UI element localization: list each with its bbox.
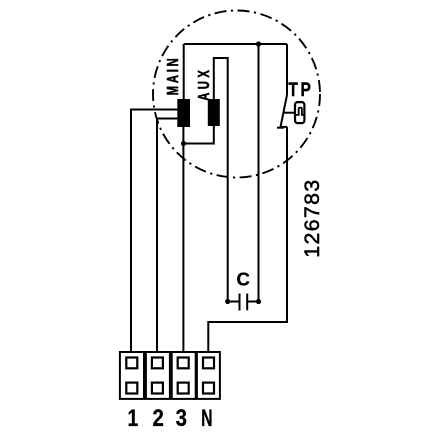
svg-text:126783: 126783 (300, 178, 324, 257)
node: junction of capacitor branch with top rail (256, 41, 261, 46)
aux winding AUX (coil body) (208, 99, 220, 126)
motor stator boundary (dash-dot circle) (153, 11, 320, 178)
thermal protector TP housing (295, 102, 304, 123)
wire: capacitor left stub (228, 301, 239, 303)
terminal 1 upper contact square (126, 358, 137, 369)
thermal protector TP inner bimetal element (296, 108, 304, 115)
node: capacitor left terminal (225, 299, 230, 304)
svg-text:3: 3 (176, 404, 187, 431)
terminal label 2 (153, 404, 164, 431)
svg-text:TP: TP (288, 79, 313, 101)
terminal N upper contact square (203, 358, 214, 369)
thermal protector TP contact tick (277, 127, 284, 129)
wire: TP top lead from rail (286, 44, 288, 95)
terminal 3 upper contact square (178, 358, 189, 369)
main winding MAIN (label) (163, 55, 182, 95)
thermal protector TP label (288, 79, 313, 101)
wire: top rail from MAIN top to TP (184, 43, 287, 45)
drawing number 126783 (rotated) (300, 178, 324, 257)
terminal block cell 1 (120, 352, 144, 399)
terminal N lower contact square (203, 383, 214, 394)
wire: AUX winding bottom lead to junction (183, 126, 213, 144)
node: capacitor right terminal (256, 299, 261, 304)
terminal 2 upper contact square (152, 358, 163, 369)
terminal 3 lower contact square (178, 383, 189, 394)
wire: terminal 1 to MAIN upper tap (131, 110, 177, 353)
terminal block cell 4 (197, 352, 220, 399)
node: junction of MAIN, AUX and terminal-3 wire (181, 141, 186, 146)
wire: capacitor right stub (247, 301, 258, 303)
terminal block cell 2 (146, 352, 170, 399)
svg-text:1: 1 (127, 404, 138, 432)
svg-text:N: N (201, 406, 212, 432)
wire: MAIN bottom lead down to terminal 3 (182, 127, 184, 352)
thermal protector TP switch blade (281, 95, 288, 127)
svg-text:C: C (237, 269, 250, 290)
svg-text:2: 2 (153, 404, 164, 431)
aux winding AUX (label) (194, 67, 213, 101)
main winding MAIN (coil body) (177, 99, 190, 127)
wire: terminal 2 to MAIN lower tap (157, 119, 177, 353)
terminal 1 lower contact square (126, 383, 137, 394)
wire: MAIN winding top lead (183, 44, 185, 99)
terminal label 3 (176, 404, 187, 431)
terminal label N (201, 406, 212, 432)
capacitor C label (237, 269, 250, 290)
capacitor C right plate (246, 294, 248, 311)
terminal label 1 (127, 404, 138, 432)
wire: TP bottom contact jog (281, 126, 288, 128)
wire: TP to terminal N (208, 127, 287, 352)
terminal 2 lower contact square (152, 383, 163, 394)
wire: AUX top lead loop over to capacitor branch (214, 58, 228, 302)
terminal block cell 3 (172, 352, 196, 399)
wire: TP actuator link to blade (283, 112, 294, 114)
wire: capacitor right lead up to top rail (258, 44, 260, 302)
capacitor C left plate (239, 294, 241, 311)
svg-text:AUX: AUX (194, 67, 213, 101)
svg-text:MAIN: MAIN (163, 55, 182, 95)
